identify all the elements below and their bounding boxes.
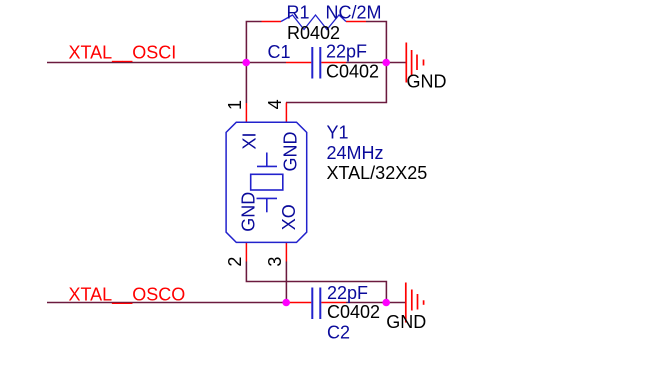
- svg-text:R0402: R0402: [287, 23, 340, 43]
- svg-text:GND: GND: [386, 312, 426, 332]
- svg-text:C1: C1: [268, 42, 291, 62]
- svg-text:4: 4: [265, 99, 285, 109]
- svg-text:GND: GND: [239, 192, 259, 232]
- svg-text:R1: R1: [287, 2, 310, 22]
- svg-text:22pF: 22pF: [327, 283, 368, 303]
- svg-text:3: 3: [265, 257, 285, 267]
- svg-text:Y1: Y1: [327, 123, 349, 143]
- svg-text:XTAL__OSCO: XTAL__OSCO: [69, 285, 186, 306]
- svg-text:2: 2: [225, 257, 245, 267]
- svg-text:XO: XO: [279, 204, 299, 230]
- svg-text:XTAL/32X25: XTAL/32X25: [327, 163, 428, 183]
- svg-text:C0402: C0402: [326, 62, 379, 82]
- svg-text:C2: C2: [327, 323, 350, 343]
- svg-text:GND: GND: [280, 132, 300, 172]
- svg-text:22pF: 22pF: [326, 42, 367, 62]
- svg-text:XI: XI: [239, 132, 259, 149]
- svg-text:NC/2M: NC/2M: [326, 2, 382, 22]
- svg-text:GND: GND: [407, 71, 447, 91]
- svg-text:24MHz: 24MHz: [327, 143, 384, 163]
- svg-text:XTAL__OSCI: XTAL__OSCI: [69, 42, 177, 63]
- svg-text:1: 1: [225, 100, 245, 110]
- svg-text:C0402: C0402: [327, 302, 380, 322]
